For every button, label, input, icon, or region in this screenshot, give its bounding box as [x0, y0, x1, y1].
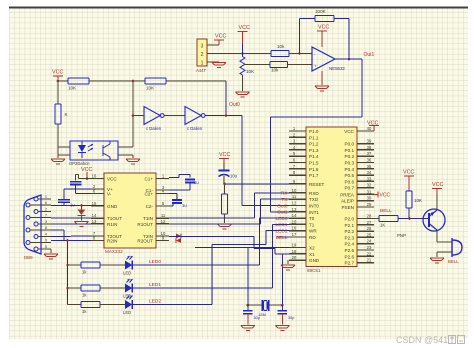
svg-text:LED0: LED0 — [149, 259, 161, 265]
svg-text:37: 37 — [367, 151, 372, 156]
svg-text:8: 8 — [45, 226, 47, 230]
svg-text:VCC: VCC — [367, 121, 378, 127]
svg-text:21: 21 — [367, 258, 372, 263]
svg-text:+: + — [314, 64, 317, 69]
svg-text:10u: 10u — [230, 174, 238, 179]
svg-text:P2.2: P2.2 — [345, 229, 355, 234]
svg-text:LED: LED — [123, 271, 131, 276]
svg-text:VCC: VCC — [52, 70, 63, 76]
svg-text:C2+: C2+ — [144, 192, 153, 197]
svg-text:LED1: LED1 — [276, 222, 288, 228]
svg-text:BELL: BELL — [380, 208, 392, 214]
svg-text:T0: T0 — [309, 216, 315, 221]
svg-text:P2.4: P2.4 — [345, 242, 355, 247]
svg-text:P2.6: P2.6 — [345, 254, 355, 259]
svg-text:20: 20 — [292, 255, 297, 260]
svg-text:3: 3 — [45, 220, 47, 224]
svg-text:DB9: DB9 — [24, 255, 33, 260]
svg-text:P0.1: P0.1 — [345, 148, 355, 153]
svg-text:P1.2: P1.2 — [309, 142, 319, 147]
svg-text:GND: GND — [107, 204, 118, 209]
svg-text:13: 13 — [92, 219, 97, 224]
svg-text:16: 16 — [92, 174, 97, 179]
svg-text:9: 9 — [45, 239, 47, 243]
svg-text:PNP: PNP — [397, 233, 406, 238]
svg-text:T1: T1 — [309, 222, 315, 227]
svg-text:1: 1 — [201, 61, 204, 67]
svg-text:LED1: LED1 — [149, 282, 161, 288]
svg-text:Out1: Out1 — [364, 52, 375, 58]
svg-text:VCC: VCC — [219, 152, 230, 158]
svg-text:11: 11 — [292, 194, 297, 199]
svg-text:VCC: VCC — [344, 129, 354, 134]
svg-text:RD: RD — [309, 235, 316, 240]
svg-text:34: 34 — [367, 170, 372, 175]
svg-text:P2.5: P2.5 — [345, 248, 355, 253]
svg-text:P1.7: P1.7 — [309, 173, 319, 178]
svg-text:VCC: VCC — [215, 34, 226, 40]
svg-text:38: 38 — [367, 145, 372, 150]
svg-text:16: 16 — [292, 226, 297, 231]
svg-text:15: 15 — [292, 219, 297, 224]
svg-text:P0.5: P0.5 — [345, 173, 355, 178]
svg-text:GND: GND — [309, 258, 320, 263]
svg-text:33: 33 — [367, 176, 372, 181]
svg-text:32: 32 — [367, 183, 372, 188]
svg-text:10: 10 — [292, 188, 297, 193]
svg-text:R1IN: R1IN — [107, 222, 117, 227]
svg-text:100K: 100K — [315, 9, 327, 14]
svg-text:VCC: VCC — [239, 25, 250, 31]
svg-text:V-: V- — [107, 192, 112, 197]
svg-text:10K: 10K — [246, 69, 255, 74]
svg-text:22: 22 — [367, 251, 372, 256]
svg-text:10k: 10k — [277, 44, 285, 49]
svg-text:P0.7: P0.7 — [345, 186, 355, 191]
svg-text:36: 36 — [367, 158, 372, 163]
svg-text:P2.1: P2.1 — [345, 223, 355, 228]
svg-text:13: 13 — [292, 207, 297, 212]
svg-text:1u: 1u — [194, 180, 199, 185]
svg-text:P1.6: P1.6 — [309, 167, 319, 172]
svg-text:28: 28 — [367, 214, 372, 219]
svg-text:LED: LED — [123, 310, 131, 315]
svg-text:29: 29 — [367, 202, 372, 207]
svg-text:24: 24 — [367, 239, 372, 244]
svg-text:P0.2: P0.2 — [345, 154, 355, 159]
svg-text:R1OUT: R1OUT — [137, 222, 153, 227]
svg-text:MAX232: MAX232 — [105, 249, 123, 254]
svg-text:2: 2 — [201, 52, 204, 58]
svg-text:12: 12 — [161, 219, 166, 224]
svg-text:31: 31 — [367, 189, 372, 194]
svg-text:30p: 30p — [254, 316, 260, 320]
svg-text:P0.0: P0.0 — [345, 142, 355, 147]
svg-text:VCC: VCC — [107, 177, 117, 182]
svg-text:PSEN: PSEN — [341, 205, 354, 210]
svg-text:c Dalien: c Dalien — [187, 126, 203, 131]
svg-text:BELL: BELL — [448, 259, 459, 264]
svg-text:CSDN @541: CSDN @541 — [396, 335, 448, 345]
svg-text:RXD: RXD — [309, 191, 319, 196]
svg-text:TX: TX — [281, 197, 288, 203]
svg-text:1K: 1K — [380, 223, 385, 228]
svg-text:6: 6 — [45, 201, 47, 205]
svg-text:VCC: VCC — [432, 182, 443, 188]
svg-text:RESET: RESET — [309, 182, 325, 187]
svg-text:A44T: A44T — [196, 68, 206, 73]
svg-text:PR/EA: PR/EA — [340, 192, 355, 197]
svg-text:RX: RX — [281, 191, 288, 197]
svg-text:12: 12 — [292, 201, 297, 206]
svg-text:35: 35 — [367, 164, 372, 169]
svg-text:14: 14 — [292, 213, 297, 218]
svg-text:Out0: Out0 — [277, 203, 288, 209]
svg-text:OP2Dahcn: OP2Dahcn — [69, 161, 90, 166]
svg-text:P1.4: P1.4 — [309, 154, 319, 159]
svg-text:40: 40 — [367, 126, 372, 131]
svg-text:89C51: 89C51 — [307, 268, 321, 273]
svg-text:Out1: Out1 — [277, 210, 288, 216]
svg-text:P2.0: P2.0 — [345, 217, 355, 222]
svg-text:3: 3 — [201, 44, 204, 50]
svg-text:T1IN: T1IN — [143, 216, 153, 221]
svg-text:26: 26 — [367, 226, 372, 231]
svg-text:5: 5 — [45, 245, 47, 249]
svg-text:NE5532: NE5532 — [329, 66, 345, 71]
svg-text:P1.0: P1.0 — [309, 129, 319, 134]
svg-text:10k: 10k — [271, 68, 279, 73]
svg-text:WR: WR — [309, 229, 317, 234]
svg-text:INT1: INT1 — [309, 210, 319, 215]
svg-text:39: 39 — [367, 139, 372, 144]
svg-text:P1.3: P1.3 — [309, 148, 319, 153]
svg-text:LED2: LED2 — [149, 299, 161, 305]
svg-text:LED2: LED2 — [276, 229, 288, 235]
svg-text:Out0: Out0 — [229, 102, 240, 108]
svg-text:P0.6: P0.6 — [345, 179, 355, 184]
svg-text:R2OUT: R2OUT — [137, 239, 153, 244]
svg-text:BELL: BELL — [276, 235, 288, 241]
svg-text:2: 2 — [45, 208, 47, 212]
svg-text:ALE/P: ALE/P — [341, 199, 354, 204]
svg-text:17: 17 — [292, 232, 297, 237]
svg-text:7: 7 — [45, 214, 47, 218]
svg-text:11: 11 — [161, 213, 166, 218]
svg-text:VCC: VCC — [318, 25, 329, 31]
svg-text:10K: 10K — [414, 198, 422, 203]
svg-text:30p: 30p — [288, 316, 294, 320]
svg-text:18: 18 — [292, 249, 297, 254]
svg-text:10K: 10K — [146, 86, 155, 91]
svg-text:P0.3: P0.3 — [345, 161, 355, 166]
svg-text:25: 25 — [367, 232, 372, 237]
svg-text:19: 19 — [292, 243, 297, 248]
svg-text:23: 23 — [367, 245, 372, 250]
svg-text:27: 27 — [367, 220, 372, 225]
svg-text:T1OUT: T1OUT — [107, 216, 122, 221]
svg-text:VCC: VCC — [403, 170, 414, 176]
svg-text:X2: X2 — [309, 246, 315, 251]
svg-text:P2.3: P2.3 — [345, 235, 355, 240]
svg-text:1u: 1u — [182, 203, 187, 208]
svg-text:P0.4: P0.4 — [345, 167, 355, 172]
svg-text:VCC: VCC — [380, 193, 391, 199]
svg-text:P1.1: P1.1 — [309, 135, 319, 140]
svg-text:C2-: C2- — [146, 204, 154, 209]
svg-text:INT0: INT0 — [309, 204, 319, 209]
svg-text:R2IN: R2IN — [107, 239, 117, 244]
svg-text:X1: X1 — [309, 252, 315, 257]
svg-text:P2.7: P2.7 — [345, 261, 355, 266]
svg-text:LED0: LED0 — [276, 216, 288, 222]
svg-text:14: 14 — [92, 213, 97, 218]
svg-text:P1.5: P1.5 — [309, 161, 319, 166]
svg-text:c Dalien: c Dalien — [146, 126, 162, 131]
svg-text:10K: 10K — [68, 86, 77, 91]
svg-text:TXD: TXD — [309, 197, 319, 202]
svg-text:4: 4 — [45, 233, 47, 237]
svg-text:30: 30 — [367, 196, 372, 201]
svg-text:1: 1 — [45, 195, 47, 199]
svg-text:C1+: C1+ — [144, 177, 153, 182]
